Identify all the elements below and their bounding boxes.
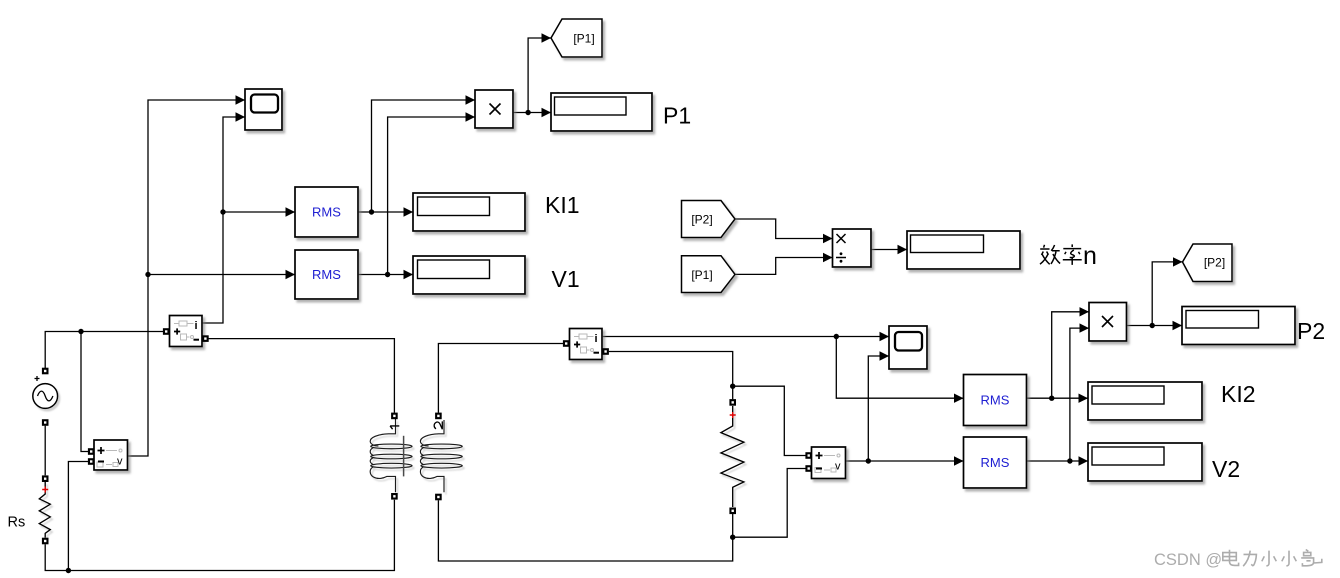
arrowhead product1 input1	[466, 95, 476, 104]
label efficiency Chinese lv	[1063, 244, 1082, 265]
junction v signal branch	[145, 272, 150, 277]
arrowhead divide input1	[823, 234, 833, 243]
svg-text:KI2: KI2	[1221, 381, 1256, 407]
arrowhead display P1 input	[542, 108, 552, 117]
arrowhead product1 input2	[466, 112, 476, 121]
port winding1 top	[391, 413, 398, 420]
port winding2 bottom	[435, 494, 442, 501]
junction RMS4 out	[1067, 458, 1072, 463]
wire branch product1 output up to goto tag P1	[528, 38, 551, 113]
port Rs bottom	[42, 538, 49, 545]
svg-text:KI1: KI1	[545, 192, 580, 218]
wire branch v signal to RMS2 input	[148, 274, 295, 276]
arrowhead product2 input2	[1080, 323, 1090, 332]
display KI1	[413, 193, 525, 231]
svg-text:V2: V2	[1212, 456, 1240, 482]
wire load resistor bottom to secondary rail and winding2 bottom	[438, 500, 732, 561]
wire AC source + to node A and to current meter CM1	[45, 332, 163, 369]
port Rs top	[42, 475, 49, 482]
label efficiency Chinese xiao	[1040, 245, 1060, 264]
transformer core bar	[403, 436, 405, 477]
wire CM2 minus to load resistor top	[609, 352, 733, 400]
junction CM2 i signal	[834, 334, 839, 339]
port load resistor top	[729, 399, 736, 406]
node A junction	[78, 329, 83, 334]
arrowhead goto P2 input	[1173, 257, 1183, 266]
svg-text:RMS: RMS	[981, 455, 1010, 470]
RMS block RMS3	[964, 375, 1027, 426]
voltage measurement VM2	[812, 447, 846, 479]
current measurement CM1	[170, 316, 203, 347]
wire primary bottom rail: Rs bottom to transformer winding1 bottom	[45, 500, 394, 571]
display P1	[551, 93, 652, 131]
resistor Rs	[39, 482, 50, 538]
arrowhead RMS3 input	[954, 394, 964, 403]
RMS block RMS2	[295, 250, 358, 299]
scope Scope2	[889, 326, 927, 369]
RMS block RMS4	[964, 437, 1027, 488]
display V2	[1088, 443, 1202, 481]
svg-text:v: v	[835, 461, 841, 473]
divide block	[833, 229, 872, 267]
arrowhead divide input2	[823, 253, 833, 262]
wire VM1 voltage signal v up to scope input1	[128, 100, 245, 456]
wire branch CM1 i signal to RMS1 input	[223, 211, 295, 213]
display V1	[413, 256, 525, 294]
port CM1 + input	[163, 328, 170, 335]
current measurement CM2	[570, 329, 603, 360]
wire CM2 current signal i to scope2 input1	[602, 336, 889, 338]
port CM1 - output	[202, 335, 209, 342]
svg-text:[P2]: [P2]	[691, 213, 712, 227]
wire RMS3 output to display KI2	[1027, 397, 1089, 399]
arrowhead goto P1 input	[542, 33, 552, 42]
wire branch load top node to VM2 plus input	[733, 386, 806, 455]
svg-text:[P1]: [P1]	[573, 32, 594, 46]
svg-text:n: n	[1083, 242, 1097, 270]
arrowhead display V1 input	[404, 270, 414, 279]
junction load top node	[730, 384, 735, 389]
wire VM1 minus to bottom rail	[68, 462, 88, 571]
wire product1 output to display P1	[513, 112, 551, 114]
display efficiency	[907, 231, 1020, 269]
goto tag P2	[1183, 244, 1233, 282]
arrowhead scope2 input2	[880, 351, 890, 360]
svg-text:Rs: Rs	[8, 515, 26, 531]
display KI2	[1088, 382, 1202, 420]
arrowhead scope2 input1	[880, 332, 890, 341]
wire branch RMS4 output up to product2 input2	[1070, 328, 1089, 461]
label winding2 number 2	[434, 421, 442, 429]
svg-text:RMS: RMS	[981, 393, 1010, 408]
watermark Chinese xiao1	[1262, 551, 1277, 566]
voltage measurement VM1	[94, 440, 128, 470]
RMS block RMS1	[295, 187, 358, 237]
svg-text:[P2]: [P2]	[1204, 256, 1225, 270]
junction i signal branch	[220, 209, 225, 214]
wire CM1 current signal i up to scope input2	[202, 117, 245, 323]
junction product2 out	[1150, 323, 1155, 328]
port AC source +	[42, 368, 49, 375]
transformer winding 2	[420, 420, 462, 492]
port VM2 +	[805, 452, 812, 459]
wire branch CM2 i signal down to RMS3 input	[836, 337, 963, 399]
svg-text:P2: P2	[1297, 318, 1325, 344]
svg-text:P1: P1	[663, 103, 691, 129]
wire divide output to efficiency display	[871, 249, 907, 251]
arrowhead efficiency display input	[898, 245, 908, 254]
port CM2 - output	[602, 348, 609, 355]
junction RMS1 out	[369, 209, 374, 214]
wire RMS4 output to display V2	[1027, 460, 1089, 462]
arrowhead RMS1 input	[286, 207, 296, 216]
junction VM2 out	[866, 458, 871, 463]
wire branch load bottom node to VM2 minus input	[733, 469, 806, 538]
wire CM1 minus to transformer winding1 top port	[208, 339, 394, 413]
svg-text:RMS: RMS	[312, 205, 341, 220]
svg-text:v: v	[117, 456, 123, 468]
scope Scope1	[245, 89, 282, 130]
junction bottom rail VM1 minus	[66, 568, 71, 573]
port winding2 top	[435, 413, 442, 420]
arrowhead RMS2 input	[286, 270, 296, 279]
junction RMS2 out	[385, 272, 390, 277]
AC voltage source	[33, 376, 58, 408]
arrowhead display V2 input	[1079, 456, 1089, 465]
label winding1 number 1	[390, 426, 399, 429]
product block product2	[1089, 303, 1127, 342]
load resistor RL	[721, 406, 744, 507]
port CM2 + input	[563, 340, 570, 347]
arrowhead display KI2 input	[1079, 394, 1089, 403]
svg-text:[P1]: [P1]	[691, 268, 712, 282]
port VM2 -	[805, 465, 812, 472]
port winding1 bottom	[391, 493, 398, 500]
junction load bottom node	[730, 535, 735, 540]
port load resistor bottom	[729, 508, 736, 515]
product block product1	[475, 90, 513, 128]
svg-text:i: i	[595, 333, 598, 345]
port VM1 -	[88, 458, 95, 465]
wire branch v2 signal up to scope2 input2	[868, 356, 889, 461]
svg-text:CSDN @: CSDN @	[1154, 551, 1222, 569]
arrowhead display KI1 input	[404, 207, 414, 216]
wire branch RMS2 output up to product1 input2	[388, 117, 475, 275]
wire branch RMS3 output up to product2 input1	[1052, 312, 1089, 398]
watermark Chinese xiao2	[1282, 551, 1297, 566]
wire RMS1 output to display KI1	[358, 211, 413, 213]
arrowhead display P2 input	[1173, 321, 1183, 330]
port AC source -	[42, 419, 49, 426]
arrowhead scope1 input1	[236, 95, 246, 104]
port VM1 +	[88, 448, 95, 455]
wire from tag P2 to divide input1	[735, 219, 833, 239]
goto tag P1	[551, 19, 602, 57]
wire VM2 voltage signal v to RMS4 input	[846, 460, 964, 462]
junction RMS3 out	[1049, 396, 1054, 401]
wire branch RMS1 output up to product1 input1	[372, 100, 476, 212]
display P2	[1182, 307, 1295, 345]
arrowhead product2 input1	[1080, 307, 1090, 316]
wire AC source - down to resistor Rs	[44, 426, 46, 476]
wire branch product2 output up to goto tag P2	[1152, 262, 1182, 326]
from tag P2	[682, 201, 736, 238]
watermark Chinese niao	[1301, 550, 1322, 566]
from tag P1	[682, 256, 736, 293]
wire from tag P1 to divide input2	[735, 258, 833, 275]
arrowhead RMS4 input	[954, 456, 964, 465]
wire node A down to voltmeter VM1 plus input	[81, 332, 88, 452]
svg-text:RMS: RMS	[312, 267, 341, 282]
wire transformer winding2 top up to current meter CM2	[438, 344, 563, 413]
wire product2 output to display P2	[1127, 325, 1183, 327]
arrowhead scope1 input2	[236, 112, 246, 121]
watermark Chinese dian	[1223, 550, 1239, 566]
svg-text:V1: V1	[552, 266, 580, 292]
transformer winding 1	[370, 419, 412, 492]
svg-text:i: i	[195, 320, 198, 332]
junction product1 out	[525, 110, 530, 115]
wire RMS2 output to display V1	[358, 274, 413, 276]
watermark Chinese li	[1243, 551, 1256, 567]
